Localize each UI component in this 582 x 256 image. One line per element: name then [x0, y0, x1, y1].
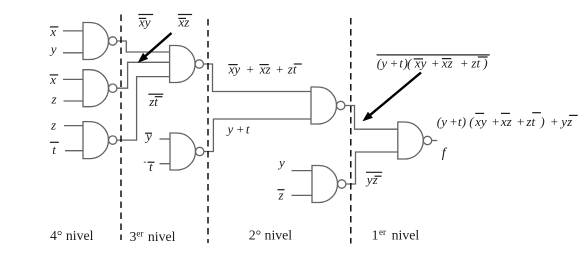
svg-text:2° nivel: 2° nivel	[249, 228, 293, 243]
wire: G2 output to G4 input 2	[117, 62, 170, 88]
svg-text:1er nivel: 1er nivel	[372, 227, 420, 243]
wire: G7 output to G8 input 2	[346, 152, 398, 184]
svg-text:zt: zt	[148, 94, 158, 109]
arrow from label x-bar-z to wire	[139, 33, 172, 62]
wire: input y-bar to G5	[160, 138, 171, 140]
svg-text:z: z	[50, 118, 56, 133]
NAND gate G6 (2nd level NAND)	[311, 87, 345, 124]
svg-text:xz: xz	[178, 14, 190, 29]
wire: input y to G1	[63, 52, 83, 54]
stray dot mark near t-bar label	[144, 162, 146, 163]
svg-text:z: z	[51, 91, 57, 106]
svg-text:y: y	[144, 129, 152, 144]
NAND gate G3 (4th level, inputs z, t-bar)	[83, 122, 117, 159]
wire: input x-bar to G1	[63, 30, 83, 32]
svg-text:y+t: y+t	[226, 122, 250, 137]
svg-text:4° nivel: 4° nivel	[50, 228, 94, 243]
NAND gate G4 (3rd level, 3-input NAND)	[170, 46, 204, 83]
wire: input y to G7	[292, 170, 313, 172]
arrow from overline expression to wire	[364, 73, 422, 121]
dashed separator between 4th and 3rd level	[120, 15, 122, 241]
NAND gate G5 (3rd level, inputs y-bar, t-bar)	[170, 133, 204, 170]
svg-text:f: f	[442, 145, 448, 160]
NAND gate G1 (4th level, inputs x-bar, y)	[83, 23, 117, 60]
NAND gate G7 (1st level, inputs y, z-bar)	[312, 166, 346, 203]
wire: G4 output to G6 input 1	[204, 64, 312, 92]
svg-text:y: y	[49, 42, 57, 57]
wire: input t-bar to G3	[65, 150, 83, 152]
svg-text:xy: xy	[138, 14, 151, 29]
wire: G8 output f	[432, 140, 438, 142]
svg-text:y: y	[277, 155, 285, 170]
wire: input z to G2	[64, 100, 84, 102]
svg-text:xy+xz+zt: xy+xz+zt	[228, 61, 297, 76]
svg-text:t: t	[149, 159, 153, 174]
wire: G6 output to G8 input 1	[345, 106, 398, 130]
NAND gate G2 (4th level, inputs x-bar, z)	[83, 70, 117, 107]
svg-text:yz: yz	[365, 172, 378, 187]
svg-text:t: t	[52, 142, 56, 157]
wire: input x-bar to G2	[63, 78, 83, 80]
wire: input t-bar to G5	[160, 163, 171, 165]
wire: G5 output to G6 input 2	[204, 119, 311, 152]
svg-text:3er nivel: 3er nivel	[130, 229, 176, 245]
overbars inside expressions	[228, 64, 237, 66]
svg-text:(y+t)(xy+xz+zt)+yz: (y+t)(xy+xz+zt)+yz	[437, 114, 572, 129]
wire: input z to G3	[64, 125, 83, 127]
NAND gate G8 (1st level, output f)	[398, 122, 432, 159]
wire: input z-bar to G7	[292, 194, 313, 196]
dashed separator between 3rd and 2nd level	[207, 19, 209, 243]
svg-text:(y+t)(xy+xz+zt): (y+t)(xy+xz+zt)	[377, 55, 488, 70]
wire: G3 output to G4 input 3	[117, 77, 170, 141]
wire: G1 output to G4 input 1	[117, 41, 170, 52]
dashed separator between 2nd and 1st level	[350, 18, 352, 244]
svg-text:x: x	[49, 24, 56, 39]
svg-text:x: x	[49, 72, 56, 87]
